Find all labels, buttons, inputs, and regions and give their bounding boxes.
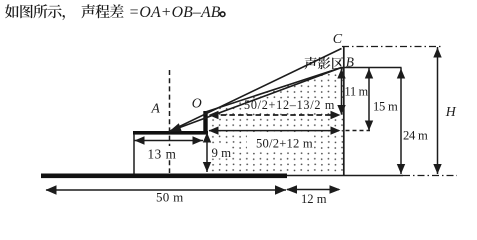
label 声影区 (sound shadow zone) (304, 57, 316, 69)
ground thin line right (287, 175, 403, 177)
svg-text:=OA+OB–AB: =OA+OB–AB (129, 4, 221, 21)
svg-text:15 m: 15 m (373, 99, 398, 113)
building wall line (343, 47, 345, 176)
barrier wall at O (203, 111, 207, 135)
stippled berm region (208, 68, 344, 172)
svg-text:12 m: 12 m (301, 192, 327, 206)
B level line (341, 67, 402, 69)
dim H (437, 47, 439, 174)
svg-text:50/2+12 m: 50/2+12 m (256, 137, 313, 151)
dim 15 m (368, 68, 370, 131)
dim 50/2+12-13/2 m dashed line (212, 114, 337, 116)
svg-text:11 m: 11 m (345, 85, 369, 99)
svg-text:O: O (192, 96, 202, 111)
svg-text:50 m: 50 m (156, 190, 184, 205)
svg-text:B: B (346, 55, 354, 70)
svg-text:C: C (333, 32, 343, 47)
line O-B (206, 68, 342, 113)
ground thick line (41, 174, 287, 179)
dim 13 m (134, 140, 203, 142)
platform top thick line (133, 131, 208, 135)
svg-text:A: A (151, 101, 161, 116)
dim 12 m (287, 189, 339, 191)
dim 50 m (46, 189, 286, 191)
dim 50/2+12 m line (209, 130, 339, 132)
svg-text:24 m: 24 m (403, 128, 428, 142)
arrowhead at A (169, 123, 182, 131)
dim 9 m (206, 133, 208, 172)
platform left edge (133, 134, 135, 174)
dim 24 m (400, 68, 402, 175)
dashes to 15m bottom (346, 130, 371, 132)
caption: 如图所示，声程差=OA+OB-AB。 (5, 4, 19, 18)
svg-text:H: H (445, 104, 457, 119)
svg-text:50/2+12–13/2 m: 50/2+12–13/2 m (244, 98, 335, 112)
dim 11 m (341, 68, 343, 115)
svg-text:9 m: 9 m (212, 146, 232, 160)
dashed vertical through A (169, 70, 171, 173)
line A-B (169, 68, 342, 132)
line A-O-C (169, 49, 342, 132)
text-clear boxes (242, 99, 350, 111)
svg-text:13 m: 13 m (148, 146, 177, 161)
ground dash-dot extension (403, 175, 457, 177)
dash-dot line at C level (342, 46, 441, 48)
